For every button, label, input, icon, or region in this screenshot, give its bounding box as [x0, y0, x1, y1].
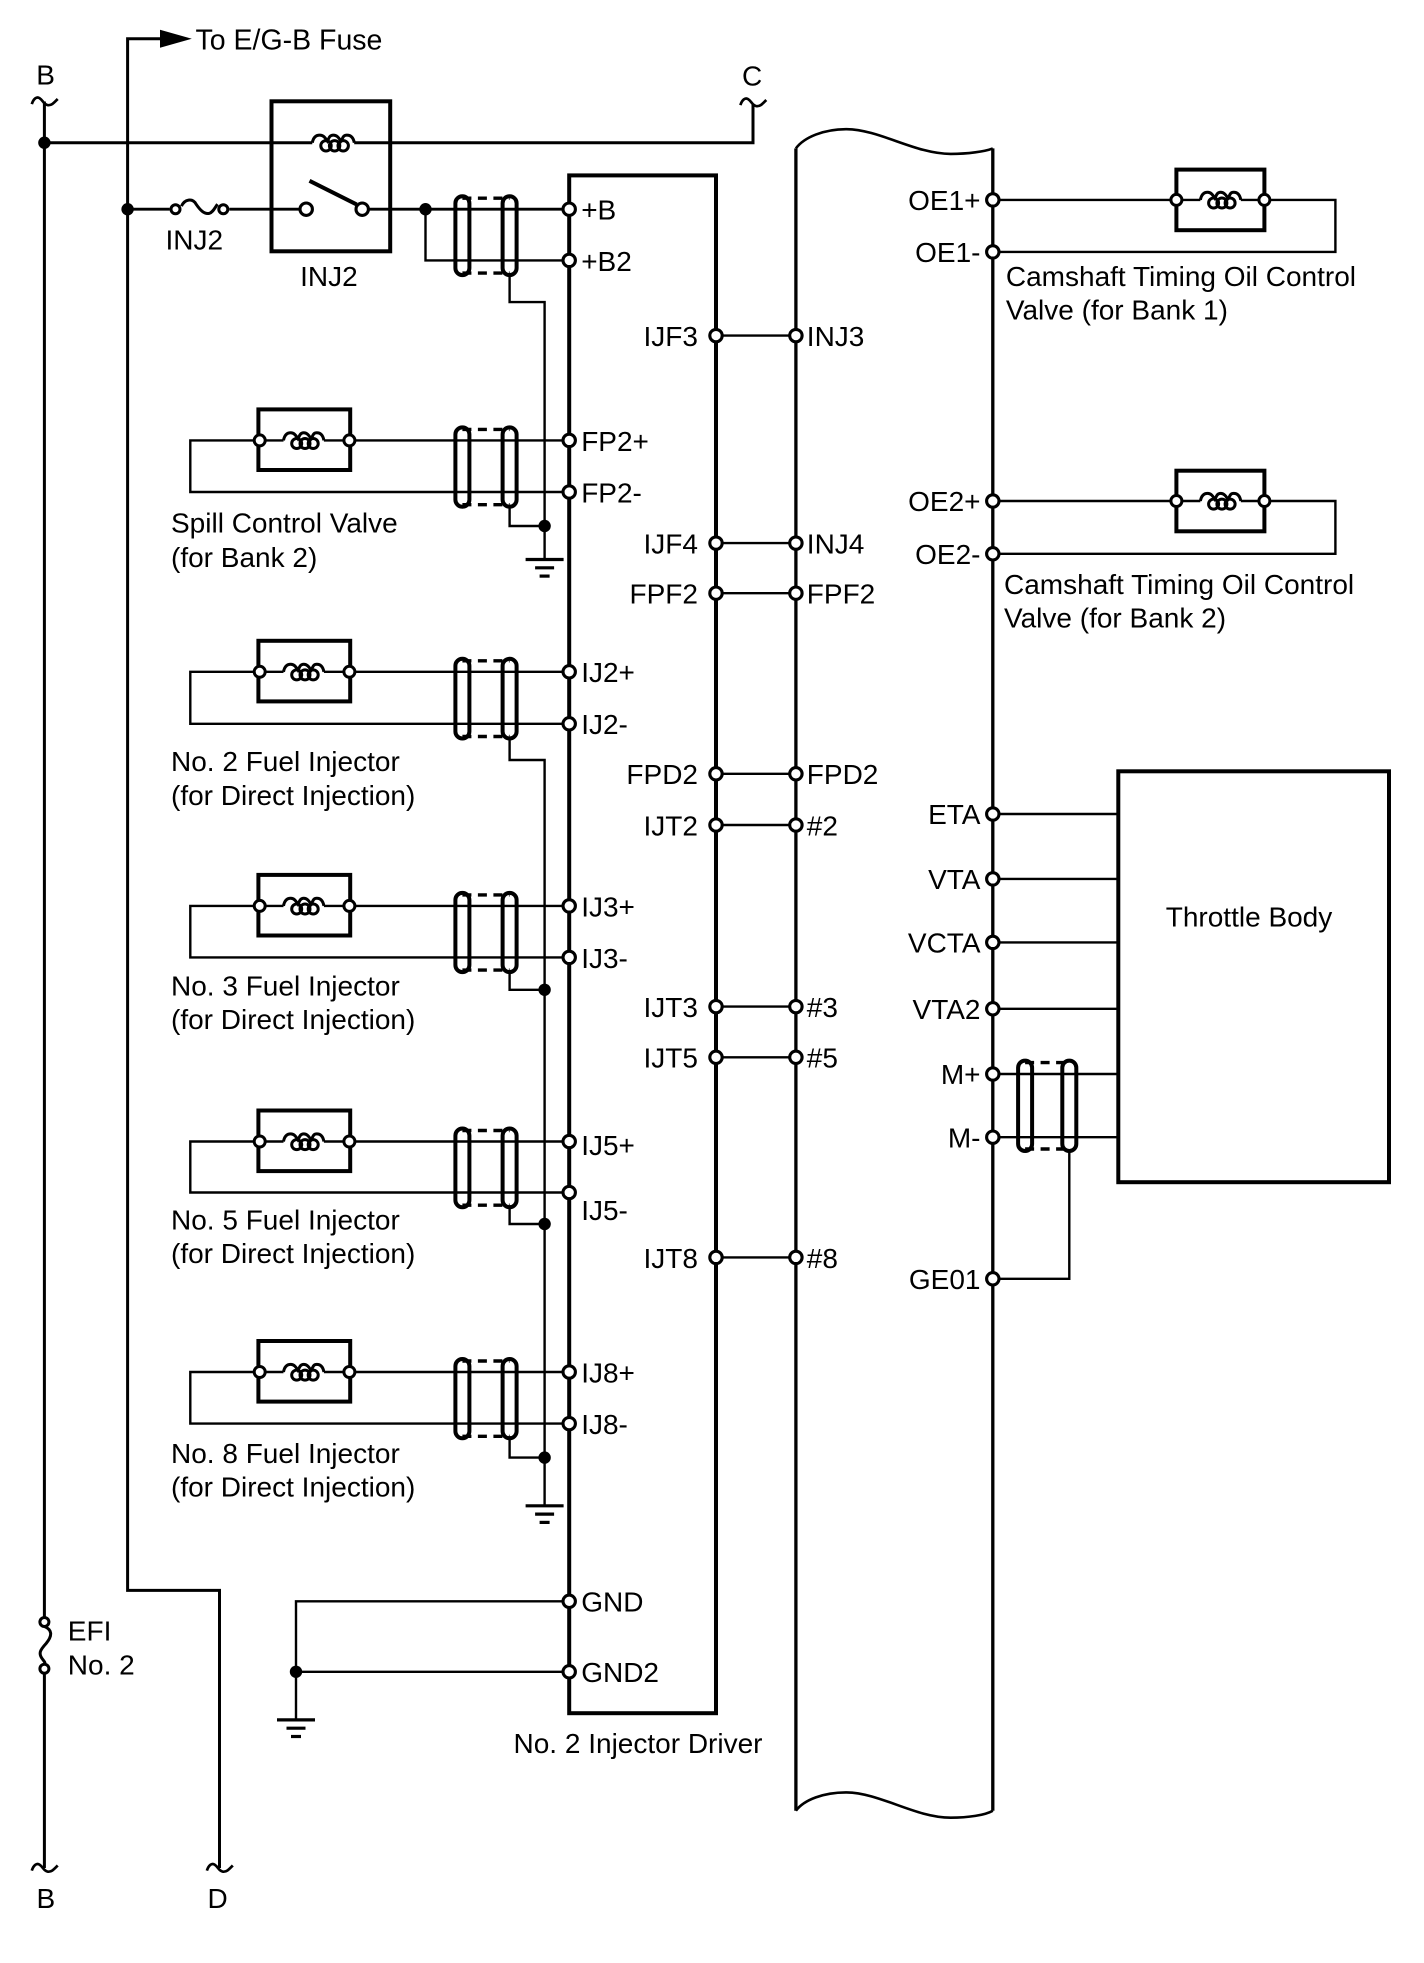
- svg-text:Valve (for Bank 1): Valve (for Bank 1): [1006, 294, 1228, 325]
- svg-text:Camshaft Timing Oil Control: Camshaft Timing Oil Control: [1006, 261, 1356, 292]
- svg-text:No. 5 Fuel Injector: No. 5 Fuel Injector: [171, 1204, 400, 1235]
- svg-text:B: B: [36, 59, 55, 90]
- svg-text:#8: #8: [807, 1243, 838, 1274]
- svg-text:#5: #5: [807, 1043, 838, 1074]
- svg-text:IJ8+: IJ8+: [581, 1357, 635, 1388]
- svg-text:IJ3-: IJ3-: [581, 943, 628, 974]
- svg-text:+B2: +B2: [581, 246, 632, 277]
- svg-text:IJ3+: IJ3+: [581, 891, 635, 922]
- svg-text:M+: M+: [941, 1059, 981, 1090]
- svg-text:No. 3 Fuel Injector: No. 3 Fuel Injector: [171, 971, 400, 1002]
- svg-text:OE1+: OE1+: [908, 185, 980, 216]
- svg-text:ETA: ETA: [928, 799, 981, 830]
- svg-text:Valve (for Bank 2): Valve (for Bank 2): [1004, 602, 1226, 633]
- svg-text:Camshaft Timing Oil Control: Camshaft Timing Oil Control: [1004, 569, 1354, 600]
- svg-text:#2: #2: [807, 810, 838, 841]
- svg-text:FP2-: FP2-: [581, 477, 642, 508]
- svg-text:(for Bank 2): (for Bank 2): [171, 542, 317, 573]
- svg-text:FPF2: FPF2: [807, 579, 875, 610]
- svg-text:C: C: [742, 61, 762, 92]
- svg-text:OE2+: OE2+: [908, 486, 980, 517]
- svg-text:(for Direct Injection): (for Direct Injection): [171, 1471, 415, 1502]
- svg-text:#3: #3: [807, 992, 838, 1023]
- svg-text:FPD2: FPD2: [626, 759, 698, 790]
- svg-text:IJ2-: IJ2-: [581, 709, 628, 740]
- svg-text:(for Direct Injection): (for Direct Injection): [171, 1238, 415, 1269]
- svg-text:INJ2: INJ2: [166, 225, 224, 256]
- svg-text:No. 2 Injector Driver: No. 2 Injector Driver: [514, 1728, 763, 1759]
- svg-text:+B: +B: [581, 195, 616, 226]
- svg-text:IJ8-: IJ8-: [581, 1409, 628, 1440]
- svg-text:IJT2: IJT2: [644, 810, 698, 841]
- svg-text:IJT8: IJT8: [644, 1243, 698, 1274]
- svg-text:VTA2: VTA2: [913, 994, 981, 1025]
- svg-text:INJ2: INJ2: [300, 261, 358, 292]
- svg-text:M-: M-: [948, 1122, 981, 1153]
- svg-text:IJ5+: IJ5+: [581, 1130, 635, 1161]
- svg-text:FPD2: FPD2: [807, 759, 879, 790]
- svg-text:FPF2: FPF2: [630, 579, 698, 610]
- svg-text:VTA: VTA: [928, 864, 981, 895]
- svg-text:EFI: EFI: [68, 1616, 112, 1647]
- svg-text:GE01: GE01: [909, 1264, 981, 1295]
- svg-text:VCTA: VCTA: [908, 928, 981, 959]
- svg-text:No. 8 Fuel Injector: No. 8 Fuel Injector: [171, 1438, 400, 1469]
- svg-text:OE1-: OE1-: [915, 237, 980, 268]
- svg-text:IJF4: IJF4: [644, 529, 698, 560]
- svg-text:Spill Control Valve: Spill Control Valve: [171, 508, 398, 539]
- svg-text:No. 2 Fuel Injector: No. 2 Fuel Injector: [171, 746, 400, 777]
- svg-text:D: D: [208, 1883, 228, 1914]
- svg-text:To E/G-B Fuse: To E/G-B Fuse: [196, 24, 383, 56]
- svg-text:IJ5-: IJ5-: [581, 1195, 628, 1226]
- svg-text:OE2-: OE2-: [915, 539, 980, 570]
- svg-text:No. 2: No. 2: [68, 1650, 135, 1681]
- svg-text:INJ3: INJ3: [807, 321, 865, 352]
- svg-text:IJ2+: IJ2+: [581, 657, 635, 688]
- svg-text:IJT5: IJT5: [644, 1043, 698, 1074]
- svg-text:INJ4: INJ4: [807, 529, 865, 560]
- svg-text:(for Direct Injection): (for Direct Injection): [171, 780, 415, 811]
- svg-text:B: B: [37, 1883, 56, 1914]
- svg-text:IJT3: IJT3: [644, 992, 698, 1023]
- svg-text:GND: GND: [581, 1587, 643, 1618]
- svg-text:FP2+: FP2+: [581, 426, 649, 457]
- svg-text:IJF3: IJF3: [644, 321, 698, 352]
- svg-text:Throttle Body: Throttle Body: [1166, 901, 1333, 932]
- svg-text:GND2: GND2: [581, 1657, 659, 1688]
- svg-text:(for Direct Injection): (for Direct Injection): [171, 1004, 415, 1035]
